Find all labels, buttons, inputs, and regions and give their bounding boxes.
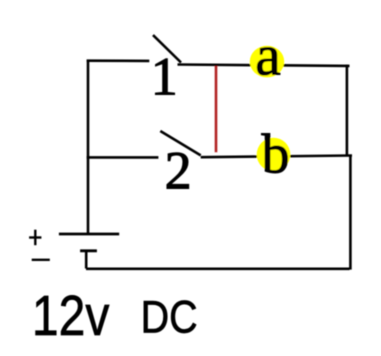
wire bottom horizontal back to battery - [86,267,350,270]
minus sign [32,259,50,261]
wire middle-right horizontal from switch 2 to right edge [201,156,352,158]
switch S1 blade (open) [153,35,181,62]
red gang link between S1 and S2 [215,66,218,152]
svg-text:b: b [262,123,290,185]
wire left vertical (top-left corner down to battery +) [87,60,90,234]
node a [250,24,284,87]
svg-text:DC: DC [141,291,198,342]
svg-text:1: 1 [151,46,178,106]
battery V1 negative plate [80,249,97,252]
wire right vertical of bottom loop [349,155,352,270]
battery V1 positive plate [59,233,119,236]
svg-text:2: 2 [165,140,192,200]
wire middle-left horizontal to switch 2 [87,156,159,159]
svg-text:a: a [255,24,280,87]
svg-text:12v: 12v [32,284,110,348]
wire top-right horizontal from switch 1 to right corner [178,65,350,66]
node b [257,123,291,185]
plus sign [29,230,41,246]
wire right vertical of top loop [346,65,349,155]
wire battery negative lead down [85,251,88,269]
switch S2 blade (open) [160,131,200,155]
wire top-left horizontal to switch 1 [87,59,150,62]
